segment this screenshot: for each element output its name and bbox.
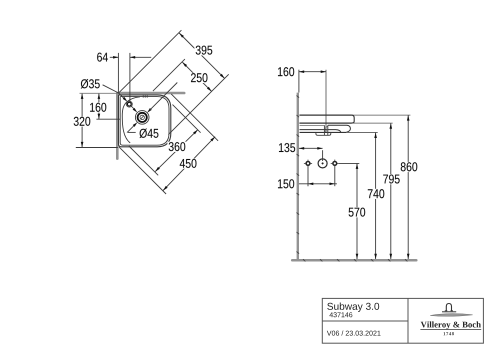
arrow 135 right bbox=[317, 147, 322, 150]
tap hole bold ring bbox=[127, 102, 131, 106]
tick left hole outer bbox=[304, 162, 306, 164]
ext line 395/250 SE side bbox=[168, 74, 228, 134]
label 860 bbox=[399, 162, 418, 172]
label 160 left view bbox=[88, 102, 107, 112]
ext line 150 left bbox=[307, 166, 309, 187]
795 extension line bbox=[352, 122, 393, 124]
arrow 320 down bbox=[81, 142, 84, 147]
wall left band (plan view) bbox=[116, 93, 119, 158]
arrow 450 SW bbox=[163, 186, 168, 191]
arrow 740 up bbox=[374, 133, 377, 138]
wall tick 3 bbox=[146, 94, 148, 97]
title block horizontal divider bbox=[322, 320, 408, 322]
drain plug right bbox=[327, 125, 329, 135]
centre hole dot bbox=[322, 163, 324, 165]
label 150 bbox=[276, 179, 295, 189]
ext line 135 to hole bbox=[322, 150, 324, 161]
O45 upper leader line going NE bbox=[150, 83, 177, 110]
drain inner circle bbox=[140, 115, 144, 119]
O45 label dash bbox=[128, 131, 136, 133]
860 extension line bbox=[352, 114, 411, 116]
arrow 64 left-pointing bbox=[130, 56, 135, 59]
wall hatch tick 4 bbox=[297, 154, 300, 156]
drain outer circle bbox=[135, 111, 149, 125]
O45 lower leader line bbox=[127, 126, 134, 133]
ext line 64 right / tap hole axis bbox=[129, 53, 131, 101]
floor hatch tick 3 bbox=[337, 259, 339, 261]
logo swoosh lens bbox=[430, 314, 472, 317]
drain plug left bbox=[323, 125, 325, 135]
wall hatch tick 8 bbox=[297, 232, 300, 234]
product name Subway 3.0 bbox=[327, 303, 333, 310]
leader O35 from text bbox=[103, 85, 119, 93]
tick left hole inner bbox=[310, 162, 312, 164]
arrow 160 down bbox=[98, 114, 101, 119]
version date bbox=[327, 331, 332, 336]
plug hatch 1 bbox=[325, 126, 328, 128]
basin outer rim outline bbox=[119, 95, 171, 147]
ext line 250 NE bbox=[153, 59, 185, 91]
wall hatch tick 2 bbox=[297, 115, 300, 117]
740 extension line bbox=[346, 131, 377, 133]
wall hatch tick 1 bbox=[297, 96, 300, 98]
arrow 135 left bbox=[299, 147, 304, 150]
tap centreline side view bbox=[325, 70, 327, 133]
tick right hole inner bbox=[331, 162, 333, 164]
right fixing hole bbox=[333, 162, 337, 166]
logo arch left foot bbox=[445, 310, 448, 312]
arrow 860 down bbox=[407, 254, 410, 259]
label 395 bbox=[194, 45, 213, 55]
arrow 320 up bbox=[81, 94, 84, 99]
label 64 bbox=[96, 52, 109, 62]
wall hatch tick 5 bbox=[297, 174, 300, 176]
dim line 450 bbox=[163, 137, 215, 191]
dim line 740 bbox=[375, 133, 377, 259]
tick left hole top bbox=[307, 160, 309, 162]
wall hatch tick 7 bbox=[297, 213, 300, 215]
wall top band (plan view) bbox=[119, 92, 185, 95]
logo underline bbox=[420, 329, 481, 331]
wall hatch tick 3 bbox=[297, 135, 300, 137]
ext line wall face bbox=[298, 70, 300, 93]
body upper contour bbox=[328, 125, 351, 132]
label O45 bbox=[138, 128, 160, 138]
ext line 450 lower bbox=[119, 147, 166, 194]
ext line 150 right bbox=[334, 166, 336, 187]
arrow 395 SE bbox=[220, 74, 225, 79]
logo plinth bar bbox=[442, 311, 456, 313]
logo arch bbox=[446, 304, 451, 311]
plug hatch 2 bbox=[325, 129, 328, 131]
label 135 bbox=[277, 143, 296, 153]
dim line 160 right view bbox=[299, 71, 326, 73]
label 160 right view bbox=[276, 67, 295, 77]
arrow 150 left bbox=[308, 183, 313, 186]
label O35 bbox=[80, 79, 102, 89]
rim bottom line bbox=[299, 122, 351, 124]
wall tick 2 bbox=[144, 94, 146, 97]
arrow 570 down bbox=[356, 254, 359, 259]
arrow 860 up bbox=[407, 115, 410, 120]
arrow into tap hole bbox=[123, 97, 128, 102]
tap hole outer circle O35 bbox=[126, 101, 132, 107]
arrow 250 SE bbox=[207, 87, 212, 92]
floor hatch tick 5 bbox=[371, 259, 373, 261]
arrow 160 left bbox=[299, 70, 304, 73]
arrow 450 NE bbox=[210, 137, 215, 142]
floor hatch tick 1 bbox=[303, 259, 305, 261]
centre drain hole side view bbox=[318, 159, 327, 168]
floor hatch tick 4 bbox=[354, 259, 356, 261]
dim line 570 bbox=[356, 164, 358, 259]
ext line holes to 570 bbox=[339, 162, 359, 164]
drain centre tick bbox=[141, 116, 144, 119]
arrow into drain NE edge bbox=[147, 108, 152, 113]
logo arch right foot bbox=[451, 310, 454, 312]
dim line 860 bbox=[407, 115, 409, 259]
ext line from corner NE bbox=[119, 30, 181, 92]
dim line 360 bbox=[155, 130, 198, 172]
wall hatch tick 6 bbox=[297, 193, 300, 195]
dim line 160 left view bbox=[98, 94, 100, 119]
arrow into drain SW edge bbox=[133, 122, 138, 127]
arrow 360 NE bbox=[193, 130, 198, 135]
body bottom line bbox=[300, 131, 347, 133]
ext line 160 drain height bbox=[96, 118, 120, 120]
arrow 250 NW bbox=[182, 62, 187, 67]
article number 437146 bbox=[329, 312, 333, 317]
label 795 bbox=[382, 174, 401, 184]
tick right hole top bbox=[334, 160, 336, 162]
wall line extension left bbox=[80, 92, 119, 94]
drain lip bbox=[316, 133, 331, 136]
dim line 64 left part bbox=[110, 56, 119, 58]
label 320 bbox=[72, 116, 91, 126]
bowl inner left curve bbox=[122, 97, 140, 143]
dim line 250 bbox=[182, 62, 211, 91]
arrow 64 right-pointing bbox=[113, 56, 118, 59]
left fixing hole bbox=[306, 162, 310, 166]
ext line 320 bottom bbox=[76, 147, 118, 149]
arrow 160 right bbox=[321, 70, 326, 73]
arrow 795 up bbox=[390, 123, 393, 128]
dim line 64 right part bbox=[130, 56, 151, 58]
label 570 bbox=[347, 207, 366, 217]
tick right hole outer bbox=[337, 162, 339, 164]
dim line 150 bbox=[299, 183, 337, 185]
arrow 795 down bbox=[390, 254, 393, 259]
ext line 450 upper bbox=[171, 94, 218, 141]
pointer tap to drain bbox=[131, 106, 134, 109]
arrow 570 up bbox=[356, 164, 359, 169]
leader O35 diagonal bbox=[119, 93, 125, 99]
label 250 bbox=[190, 73, 209, 83]
body upper contour hidden part bbox=[300, 124, 325, 126]
arrow 160 up bbox=[98, 94, 101, 99]
title block vertical divider bbox=[407, 298, 409, 343]
wall hatch tick 9 bbox=[297, 252, 300, 254]
arrow 360 SW bbox=[155, 167, 160, 172]
arrow into drain NW bbox=[133, 108, 138, 113]
arrow 150 right bbox=[330, 183, 335, 186]
rim top line bbox=[299, 114, 351, 116]
label 740 bbox=[366, 189, 385, 199]
floor hatch tick 7 bbox=[405, 259, 407, 261]
dim line 320 bbox=[81, 94, 83, 148]
dim line 395 bbox=[179, 33, 224, 78]
logo year 1748 bbox=[444, 332, 446, 335]
label 450 bbox=[179, 159, 198, 169]
dim line 135 bbox=[299, 147, 323, 149]
ext line 360 lower bbox=[129, 146, 158, 175]
ext line 64 left bbox=[117, 53, 119, 93]
drain bold ring O45 bbox=[138, 113, 147, 122]
logo wordmark bbox=[421, 322, 427, 328]
arrow 395 NW bbox=[179, 33, 184, 38]
floor hatch tick 6 bbox=[388, 259, 390, 261]
dim line 795 bbox=[390, 123, 392, 259]
label 360 bbox=[167, 142, 186, 152]
arrow 740 down bbox=[374, 254, 377, 259]
wall tick 1 bbox=[142, 94, 144, 97]
floor band bbox=[292, 259, 416, 262]
wall band side view bbox=[297, 93, 299, 261]
body lower contour bbox=[300, 130, 341, 133]
ext line 360 upper bbox=[173, 105, 201, 133]
basin inner rim line bbox=[120, 97, 169, 146]
rim right edge bbox=[351, 115, 354, 123]
title block frame bbox=[322, 298, 483, 343]
floor hatch tick 2 bbox=[320, 259, 322, 261]
